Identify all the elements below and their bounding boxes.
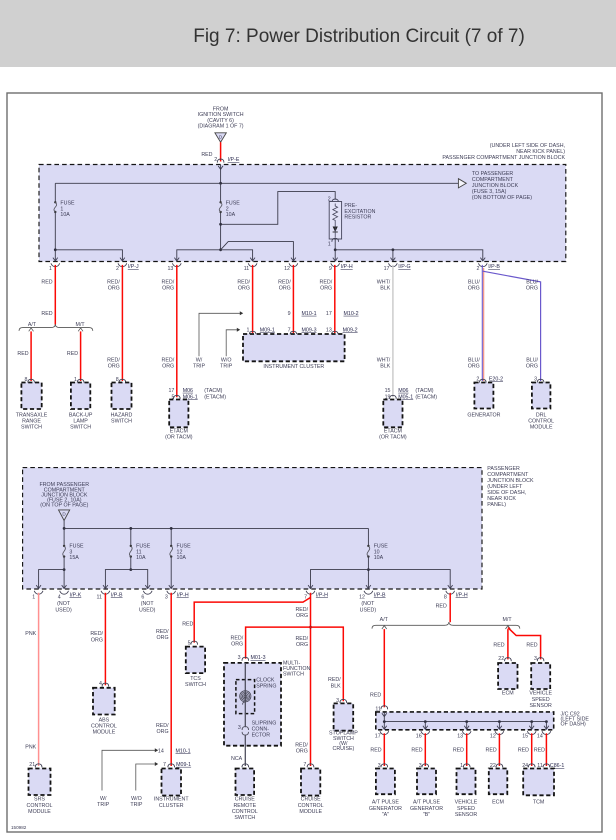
svg-text:HAZARD: HAZARD xyxy=(111,412,133,418)
svg-text:RED/: RED/ xyxy=(320,279,333,285)
brace A/T - M/T xyxy=(19,324,93,331)
wire RED feed to TCS switch xyxy=(194,597,310,642)
svg-text:17: 17 xyxy=(168,388,174,394)
svg-text:I/P-B: I/P-B xyxy=(111,592,123,598)
block2 exit pin 6 not used xyxy=(145,585,150,588)
wire RED M/T branch to vehicle speed sensor xyxy=(508,628,541,660)
svg-text:A/T PULSE: A/T PULSE xyxy=(413,800,440,806)
node junction exit7 wire xyxy=(309,626,312,629)
junction connector J/C C92 xyxy=(376,712,554,730)
svg-text:RED: RED xyxy=(534,747,545,753)
generator xyxy=(474,383,493,409)
svg-text:BLU/: BLU/ xyxy=(526,358,538,364)
svg-text:ORG: ORG xyxy=(162,286,174,292)
svg-text:1: 1 xyxy=(328,242,331,248)
hazard switch xyxy=(112,383,132,410)
svg-text:M/T: M/T xyxy=(76,322,86,328)
wire RED J/C14 to TCM pin 11 xyxy=(545,733,547,766)
svg-text:(OR TACM): (OR TACM) xyxy=(379,435,407,441)
svg-text:CLUSTER: CLUSTER xyxy=(159,803,184,809)
SRS control module xyxy=(29,769,51,796)
svg-text:ORG: ORG xyxy=(296,749,308,755)
block1 exit pin 11 xyxy=(250,258,255,261)
instrument cluster (bottom) xyxy=(162,769,182,796)
block2 exit pin 3 I/P-H xyxy=(169,585,174,588)
svg-text:I/P-H: I/P-H xyxy=(177,592,189,598)
svg-text:CONTROL: CONTROL xyxy=(27,803,53,809)
svg-text:ORG: ORG xyxy=(157,635,169,641)
stop lamp switch (w/ cruise) xyxy=(334,703,354,730)
A/T pulse generator A xyxy=(376,769,395,795)
bus wire inside block 1 xyxy=(55,182,458,184)
svg-text:M10-1: M10-1 xyxy=(302,311,317,317)
wire RED J/C17 to A/T pulse generator A xyxy=(383,733,385,766)
svg-text:NEAR KICK PANEL): NEAR KICK PANEL) xyxy=(516,149,565,155)
svg-text:CONN-: CONN- xyxy=(252,727,270,733)
svg-text:(UNDER LEFT SIDE OF DASH,: (UNDER LEFT SIDE OF DASH, xyxy=(490,143,565,149)
svg-text:M09-1: M09-1 xyxy=(176,762,191,768)
block1 exit pin 2 I/P-B xyxy=(480,258,485,261)
svg-text:MODULE: MODULE xyxy=(93,730,116,736)
TCM xyxy=(523,769,554,796)
wire entry to bus xyxy=(220,165,222,183)
block2 exit pin 11 I/P-B xyxy=(103,585,108,588)
svg-text:RED: RED xyxy=(486,747,497,753)
wire triangle to bus 2 xyxy=(63,521,65,547)
svg-text:ORG: ORG xyxy=(231,642,243,648)
svg-text:BLU/: BLU/ xyxy=(526,279,538,285)
svg-text:RED: RED xyxy=(526,642,537,648)
wire RED J/C13 to vehicle speed sensor xyxy=(466,733,468,766)
svg-text:I/P-B: I/P-B xyxy=(374,592,386,598)
svg-text:W/O: W/O xyxy=(131,796,142,802)
block2 exit pin 4 I/P-K not used xyxy=(62,585,67,588)
svg-text:PNK: PNK xyxy=(25,631,36,637)
svg-text:150982: 150982 xyxy=(11,825,27,830)
svg-text:ORG: ORG xyxy=(468,286,480,292)
svg-text:12: 12 xyxy=(359,595,365,601)
wire fuse 12 to exit 3 xyxy=(170,557,172,589)
wire RED to A/T-M/T brace xyxy=(54,265,56,325)
back-up lamp switch xyxy=(71,383,90,410)
svg-text:3: 3 xyxy=(238,725,241,731)
block1 exit pin 17 I/P-G xyxy=(391,258,396,261)
svg-text:INSTRUMENT: INSTRUMENT xyxy=(154,797,189,803)
svg-text:15: 15 xyxy=(385,388,391,394)
svg-text:RED/: RED/ xyxy=(278,279,291,285)
clock spring xyxy=(236,680,255,714)
svg-text:ORG: ORG xyxy=(526,286,538,292)
bus wire inside block 2 xyxy=(64,527,368,529)
svg-text:LAMP: LAMP xyxy=(73,419,88,425)
svg-text:M09-2: M09-2 xyxy=(343,327,358,333)
svg-text:13: 13 xyxy=(457,734,463,740)
svg-text:2: 2 xyxy=(116,266,119,272)
svg-text:TRANSAXLE: TRANSAXLE xyxy=(16,412,48,418)
clock spring coil symbol xyxy=(240,691,251,705)
fuse 10 10A xyxy=(367,528,369,546)
svg-text:17: 17 xyxy=(375,734,381,740)
svg-text:VEHICLE: VEHICLE xyxy=(529,691,552,697)
svg-text:ORG: ORG xyxy=(238,286,250,292)
arrow to passenger compartment junction block (bottom) xyxy=(458,179,466,188)
svg-text:5: 5 xyxy=(188,640,191,646)
wire resistor pin1 to exits 9/17/2 xyxy=(334,239,336,261)
svg-text:SENSOR: SENSOR xyxy=(530,703,553,709)
svg-text:ORG: ORG xyxy=(296,642,308,648)
svg-text:I/P-H: I/P-H xyxy=(456,592,468,598)
svg-text:M/T: M/T xyxy=(502,617,512,623)
svg-text:RED: RED xyxy=(41,311,52,317)
svg-text:RED: RED xyxy=(518,747,529,753)
svg-text:WHT/: WHT/ xyxy=(377,358,391,364)
svg-text:SPEED: SPEED xyxy=(457,806,475,812)
svg-text:RED: RED xyxy=(493,642,504,648)
svg-text:1: 1 xyxy=(246,327,249,333)
svg-text:BLK: BLK xyxy=(380,364,390,370)
svg-text:REMOTE: REMOTE xyxy=(233,803,256,809)
J/C C92 internal bus xyxy=(382,713,387,716)
svg-text:2: 2 xyxy=(476,376,479,382)
ABS control module xyxy=(93,688,115,715)
wire through clock spring xyxy=(244,663,246,727)
svg-text:3: 3 xyxy=(534,656,537,662)
svg-text:3: 3 xyxy=(165,595,168,601)
wire RED/ORG to ETACM (left) xyxy=(176,265,178,397)
svg-text:1: 1 xyxy=(49,266,52,272)
w/o trip arrow to cluster xyxy=(226,330,237,357)
block1 exit pin 1 xyxy=(53,258,58,261)
node fuse2 resistor tap xyxy=(219,223,222,226)
wire NCA to cruise remote control switch xyxy=(244,735,246,766)
passenger compartment junction block (top) xyxy=(39,165,566,262)
block2 exit pin 8 I/P-H xyxy=(448,585,453,588)
wire RED/ORG exit 12 to instrument cluster pin 7 xyxy=(292,265,294,333)
svg-text:M10-1: M10-1 xyxy=(176,748,191,754)
svg-text:ORG: ORG xyxy=(296,613,308,619)
svg-text:17: 17 xyxy=(384,266,390,272)
svg-text:TRIP: TRIP xyxy=(130,802,143,808)
svg-text:I/P-G: I/P-G xyxy=(398,264,410,270)
svg-text:ORG: ORG xyxy=(108,286,120,292)
svg-text:ORG: ORG xyxy=(279,286,291,292)
fuse 11 10A xyxy=(130,528,132,546)
svg-text:CONTROL: CONTROL xyxy=(528,419,554,425)
svg-text:RED: RED xyxy=(67,351,78,357)
wire RED/ORG to instrument cluster (bottom) xyxy=(170,593,172,766)
svg-text:W/O: W/O xyxy=(221,358,232,364)
svg-text:(NOT: (NOT xyxy=(361,601,375,607)
svg-text:ORG: ORG xyxy=(320,286,332,292)
wire fuse2 to exit 13 xyxy=(177,250,221,261)
svg-text:4: 4 xyxy=(58,595,61,601)
vehicle speed sensor (A/T) xyxy=(457,769,476,795)
svg-text:11: 11 xyxy=(244,266,250,272)
svg-text:A/T: A/T xyxy=(28,322,37,328)
svg-text:RED: RED xyxy=(201,152,212,158)
wire RED/ORG to ABS control module xyxy=(104,593,106,686)
vehicle speed sensor (M/T) xyxy=(531,663,550,689)
svg-text:10A: 10A xyxy=(136,555,146,561)
cruise remote control switch xyxy=(236,769,255,796)
svg-text:14: 14 xyxy=(158,748,164,754)
svg-text:22: 22 xyxy=(498,656,504,662)
svg-text:8: 8 xyxy=(444,595,447,601)
svg-text:MODULE: MODULE xyxy=(299,809,322,815)
block2 exit pin 1 xyxy=(36,585,41,588)
svg-text:PANEL): PANEL) xyxy=(487,502,506,508)
svg-text:NCA: NCA xyxy=(231,756,243,762)
svg-text:E20-2: E20-2 xyxy=(489,376,503,382)
svg-text:9: 9 xyxy=(329,266,332,272)
fuse 12 10A xyxy=(170,528,172,546)
svg-text:(OR TACM): (OR TACM) xyxy=(165,435,193,441)
svg-text:RED: RED xyxy=(17,351,28,357)
svg-text:TRIP: TRIP xyxy=(220,364,233,370)
wire RED/ORG to hazard switch xyxy=(121,265,123,381)
svg-text:I/P-E: I/P-E xyxy=(228,157,240,163)
svg-text:I/P-B: I/P-B xyxy=(488,264,500,270)
svg-text:CONTROL: CONTROL xyxy=(298,803,324,809)
svg-text:MODULE: MODULE xyxy=(28,809,51,815)
svg-text:11: 11 xyxy=(97,595,103,601)
svg-text:ECM: ECM xyxy=(502,691,514,697)
svg-text:3: 3 xyxy=(534,376,537,382)
svg-text:(ON BOTTOM OF PAGE): (ON BOTTOM OF PAGE) xyxy=(472,195,532,201)
svg-text:RED: RED xyxy=(370,693,381,699)
svg-text:"B": "B" xyxy=(423,812,430,818)
wire fuse2 tap to pre-excitation resistor pin 2 xyxy=(221,192,336,225)
svg-text:RED: RED xyxy=(436,604,447,610)
svg-text:RED: RED xyxy=(41,279,52,285)
svg-text:(ON TOP OF PAGE): (ON TOP OF PAGE) xyxy=(40,503,88,509)
svg-text:Fig 7: Power Distribution Circ: Fig 7: Power Distribution Circuit (7 of … xyxy=(193,26,525,47)
block1 exit pin 13 xyxy=(174,258,179,261)
svg-text:CONTROL: CONTROL xyxy=(232,809,258,815)
svg-text:RANGE: RANGE xyxy=(22,419,41,425)
svg-text:W/: W/ xyxy=(196,358,203,364)
svg-text:"A": "A" xyxy=(382,812,389,818)
svg-text:A/T PULSE: A/T PULSE xyxy=(372,800,399,806)
svg-text:ECTOR: ECTOR xyxy=(252,733,271,739)
ETACM (or TACM) left xyxy=(169,400,188,428)
block2 exit pin 12 I/P-B not used xyxy=(366,585,371,588)
svg-text:A/T: A/T xyxy=(380,617,389,623)
svg-text:MODULE: MODULE xyxy=(530,425,553,431)
svg-text:TRIP: TRIP xyxy=(193,364,206,370)
svg-text:ORG: ORG xyxy=(157,729,169,735)
svg-text:RED: RED xyxy=(182,621,193,627)
svg-text:RED/: RED/ xyxy=(295,636,308,642)
multi-function switch xyxy=(224,663,281,746)
svg-text:USED): USED) xyxy=(139,607,156,613)
block2 exit pin 7 I/P-H xyxy=(308,585,313,588)
svg-text:TCS: TCS xyxy=(190,676,201,682)
wire fuse 11 to exits 11 and 6 xyxy=(130,557,132,570)
svg-text:GENERATOR: GENERATOR xyxy=(467,412,500,418)
svg-text:SWITCH: SWITCH xyxy=(111,419,132,425)
TCS switch xyxy=(186,647,205,674)
svg-text:(ETACM): (ETACM) xyxy=(204,394,226,400)
svg-text:RED/: RED/ xyxy=(162,279,175,285)
svg-text:SRS: SRS xyxy=(34,797,45,803)
svg-text:DRL: DRL xyxy=(536,412,547,418)
svg-text:BLU/: BLU/ xyxy=(468,279,480,285)
svg-text:(TACM): (TACM) xyxy=(415,388,433,394)
svg-text:GENERATOR: GENERATOR xyxy=(410,806,443,812)
svg-text:RESISTOR: RESISTOR xyxy=(344,215,371,221)
block1 exit pin 9 I/P-H xyxy=(333,258,338,261)
brace A/T - M/T (bottom) xyxy=(372,622,520,629)
wire branch to stop lamp switch RED/BLK xyxy=(311,627,344,701)
svg-text:RED/: RED/ xyxy=(156,629,169,635)
svg-text:CONTROL: CONTROL xyxy=(91,723,117,729)
fuse 3 15A xyxy=(63,545,65,547)
ETACM (or TACM) right xyxy=(383,400,402,428)
svg-text:7: 7 xyxy=(163,762,166,768)
svg-text:RED/: RED/ xyxy=(162,358,175,364)
svg-text:CRUISE): CRUISE) xyxy=(333,746,355,752)
wire RED A/T branch to transaxle range switch xyxy=(29,328,34,331)
svg-text:RED/: RED/ xyxy=(328,677,341,683)
wire to exit 17 xyxy=(392,250,394,261)
svg-text:ORG: ORG xyxy=(162,364,174,370)
wire fuse2 to exit 11 xyxy=(221,250,253,261)
svg-text:I/P-K: I/P-K xyxy=(70,592,82,598)
svg-text:RED/: RED/ xyxy=(295,607,308,613)
svg-text:(TACM): (TACM) xyxy=(204,388,222,394)
svg-text:2: 2 xyxy=(214,157,217,163)
svg-text:ECM: ECM xyxy=(492,800,504,806)
wire RED/ORG exit 9 to instrument cluster pin 13 xyxy=(334,265,336,333)
connector triangle D (from fuse 2) xyxy=(59,510,70,521)
svg-text:12: 12 xyxy=(284,266,290,272)
instrument cluster (top) xyxy=(249,331,256,335)
fuse 1 10A xyxy=(54,183,56,202)
entry arrowhead pin 2 xyxy=(218,166,223,169)
block1 exit pin 2 I/P-J xyxy=(120,258,125,261)
svg-text:ORG: ORG xyxy=(108,364,120,370)
svg-text:10A: 10A xyxy=(374,555,384,561)
svg-text:SWITCH: SWITCH xyxy=(185,682,206,688)
wire fuse2 to exit 12 xyxy=(221,242,294,261)
svg-text:(NOT: (NOT xyxy=(141,601,155,607)
svg-text:RED: RED xyxy=(453,747,464,753)
svg-text:10A: 10A xyxy=(226,212,236,218)
svg-text:M09-3: M09-3 xyxy=(302,327,317,333)
svg-text:ORG: ORG xyxy=(468,364,480,370)
wire RED J/C16 to A/T pulse generator B xyxy=(424,733,426,766)
svg-text:SWITCH: SWITCH xyxy=(283,672,304,678)
svg-text:10A: 10A xyxy=(177,555,187,561)
transaxle range switch xyxy=(21,383,41,410)
svg-text:I/P-J: I/P-J xyxy=(128,264,139,270)
svg-text:(ETACM): (ETACM) xyxy=(415,394,437,400)
svg-text:RED/: RED/ xyxy=(295,743,308,749)
passenger compartment junction block (bottom) xyxy=(23,468,482,589)
block1 exit pin 12 xyxy=(291,258,296,261)
svg-text:2: 2 xyxy=(476,266,479,272)
svg-text:INSTRUMENT CLUSTER: INSTRUMENT CLUSTER xyxy=(263,364,324,370)
w/ trip arrow to cluster xyxy=(199,313,240,356)
wire fuse 3 to exits 1 and 4 xyxy=(63,557,65,589)
svg-text:10A: 10A xyxy=(60,212,70,218)
svg-text:BLK: BLK xyxy=(331,683,341,689)
svg-text:14: 14 xyxy=(537,734,543,740)
svg-text:12: 12 xyxy=(490,734,496,740)
wire fuse1 to exits 1 and 2 xyxy=(54,212,56,261)
svg-text:CRUISE: CRUISE xyxy=(301,797,321,803)
svg-text:21: 21 xyxy=(29,762,35,768)
wire RED J/C12 to ECM xyxy=(498,733,500,766)
svg-text:ORG: ORG xyxy=(91,637,103,643)
svg-text:SWITCH: SWITCH xyxy=(21,425,42,431)
svg-text:I/P-H: I/P-H xyxy=(341,264,353,270)
svg-text:W/: W/ xyxy=(100,796,107,802)
svg-text:RED/: RED/ xyxy=(156,723,169,729)
svg-text:OF DASH): OF DASH) xyxy=(561,722,587,728)
svg-text:8: 8 xyxy=(116,377,119,383)
svg-text:BACK-UP: BACK-UP xyxy=(69,412,93,418)
svg-text:M06: M06 xyxy=(398,388,408,394)
svg-text:GENERATOR: GENERATOR xyxy=(369,806,402,812)
svg-text:4: 4 xyxy=(99,681,102,687)
svg-text:13: 13 xyxy=(326,327,332,333)
wire RED M/T branch to ECM xyxy=(506,626,511,629)
svg-text:PASSENGER COMPARTMENT JUNCTION: PASSENGER COMPARTMENT JUNCTION BLOCK xyxy=(442,155,565,161)
wire WHT/BLK exit 17 to ETACM right xyxy=(392,265,394,397)
svg-text:6: 6 xyxy=(141,595,144,601)
svg-text:SPRING: SPRING xyxy=(256,684,276,690)
svg-text:ORG: ORG xyxy=(526,364,538,370)
wire RED A/T branch to J/C C92 xyxy=(382,626,387,629)
node bus junction at fuse 2 xyxy=(219,182,222,185)
svg-text:7: 7 xyxy=(303,762,306,768)
svg-text:TRIP: TRIP xyxy=(97,802,110,808)
svg-text:SENSOR: SENSOR xyxy=(455,812,478,818)
svg-text:3: 3 xyxy=(238,655,241,661)
svg-text:16: 16 xyxy=(416,734,422,740)
wire branch to multi-function switch xyxy=(246,627,311,659)
svg-text:SWITCH: SWITCH xyxy=(70,425,91,431)
J/C C92 bottom pins 17 16 13 12 15 14 xyxy=(382,726,387,729)
wire RED/ORG exit 11 to instrument cluster pin 1 xyxy=(252,265,254,333)
ECM (A/T) xyxy=(489,769,508,795)
svg-text:RED/: RED/ xyxy=(237,279,250,285)
wire RED exit 8 to brace xyxy=(449,593,451,622)
svg-text:USED): USED) xyxy=(360,607,377,613)
w/o trip arrow (bottom cluster) xyxy=(136,764,155,791)
svg-text:RED/: RED/ xyxy=(90,631,103,637)
svg-text:ETACM: ETACM xyxy=(384,428,402,434)
svg-text:CRUISE: CRUISE xyxy=(235,797,255,803)
connector triangle D (from ignition switch) xyxy=(215,133,226,142)
svg-text:ABS: ABS xyxy=(99,717,110,723)
wire RED from triangle to junction block pin 2 I/P-E xyxy=(220,142,222,161)
A/T pulse generator B xyxy=(417,769,436,795)
svg-text:13: 13 xyxy=(167,266,173,272)
svg-text:RED/: RED/ xyxy=(107,358,120,364)
DRL control module xyxy=(532,383,551,409)
svg-text:15A: 15A xyxy=(69,555,79,561)
svg-text:M09-1: M09-1 xyxy=(260,327,275,333)
svg-text:PNK: PNK xyxy=(25,744,36,750)
svg-text:15: 15 xyxy=(522,734,528,740)
wire fuse 10 to exits 7 12 8 xyxy=(367,557,369,589)
svg-text:RED: RED xyxy=(411,747,422,753)
wire RED/ORG exit 7 down xyxy=(310,593,312,766)
svg-text:SLIPRING: SLIPRING xyxy=(252,721,277,727)
